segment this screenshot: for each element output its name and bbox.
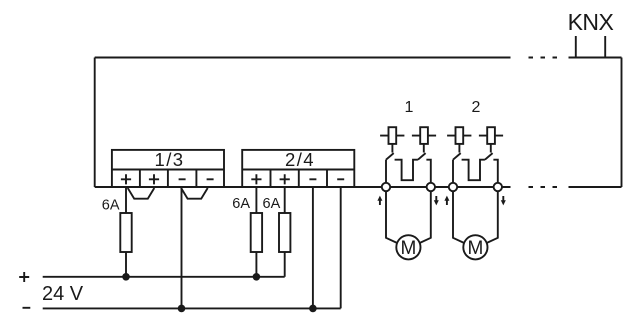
minus supply symbol xyxy=(23,307,31,309)
fuse F1 6A xyxy=(120,213,131,252)
channel 2 left switch blade xyxy=(453,153,461,160)
channel 2 relay group xyxy=(447,127,503,243)
channel 1 motor wire left xyxy=(386,191,397,243)
jumper bridge under 1/3 plus terminals xyxy=(128,188,155,199)
junction dot minus rail / 1-3 minus wire xyxy=(178,305,186,313)
channel 1 motor M1 circle xyxy=(396,235,420,259)
fuse F3 6A xyxy=(279,213,290,252)
channel 2 drive symbol left (rect) xyxy=(456,127,464,144)
device box bottom edge right segment xyxy=(569,186,622,188)
channel 1 left vertical wire to terminal xyxy=(385,160,387,183)
channel 1 right contact dropper xyxy=(423,144,425,153)
junction dot plus rail / F2 xyxy=(253,273,261,281)
channel 2 drive symbol left linkage lines xyxy=(447,135,471,137)
device box right edge xyxy=(621,58,623,188)
wire from 1/3 minus terminal to minus rail xyxy=(181,187,183,308)
channel 1 relay group xyxy=(380,127,436,243)
terminal 2/4 minus sign cell4 xyxy=(337,178,344,180)
channel 1 terminal circle right xyxy=(427,183,435,191)
KNX bus wire right xyxy=(604,36,606,58)
channel 2 down arrow xyxy=(501,196,506,205)
svg-text:6A: 6A xyxy=(263,196,281,212)
minus supply rail 24V xyxy=(43,307,341,309)
wire from fuse F3 down to plus rail corner xyxy=(284,252,286,277)
channel 2 motor wire right xyxy=(487,191,498,243)
channel 1 up arrow xyxy=(377,196,382,205)
channel 1 drive symbol right (rect) xyxy=(420,127,428,144)
channel 2 terminal circle right xyxy=(494,183,502,191)
plus supply rail 24V xyxy=(43,276,285,278)
device box bottom edge dashed continuation xyxy=(529,186,558,188)
channel 2 left vertical wire to terminal xyxy=(452,160,454,183)
channel 1 left switch blade xyxy=(386,153,394,160)
jumper bridge under 1/3 minus terminals xyxy=(181,188,208,199)
terminal 2/4 plus sign cell1 xyxy=(251,174,261,184)
device box top edge xyxy=(95,57,511,59)
fuse F2 6A xyxy=(251,213,262,252)
terminal 1/3 minus sign cell4 xyxy=(207,178,214,180)
terminal block 1/3 header divider xyxy=(112,169,224,171)
KNX bus wire left xyxy=(575,36,577,58)
terminal 1/3 plus sign cell1 xyxy=(121,174,131,184)
channel 1 drive symbol right linkage lines xyxy=(412,135,436,137)
wire from fuse F1 to plus rail xyxy=(125,252,127,277)
terminal block 1/3 outline xyxy=(112,150,224,187)
channel 2 motor M2 circle xyxy=(463,235,487,259)
plus supply symbol xyxy=(19,272,29,282)
channel 2 motor wire left xyxy=(453,191,464,243)
device box left edge xyxy=(94,58,96,188)
terminal 2/4 minus sign cell3 xyxy=(309,178,316,180)
wire from fuse F2 to plus rail xyxy=(255,252,257,277)
channel 1 right wire to terminal xyxy=(426,160,430,183)
svg-text:6A: 6A xyxy=(232,196,250,212)
svg-text:M: M xyxy=(467,238,483,259)
terminal 1/3 minus sign cell3 xyxy=(179,178,186,180)
channel 2 terminal circle left xyxy=(449,183,457,191)
wire from 2/4 plus terminal 2 to fuse F3 xyxy=(284,187,286,213)
device box bottom edge (output bus) xyxy=(95,186,511,188)
svg-text:M: M xyxy=(400,238,416,259)
channel 1 left contact dropper xyxy=(391,144,393,153)
svg-text:6A: 6A xyxy=(102,197,120,213)
channel 2 drive symbol right (rect) xyxy=(487,127,495,144)
terminal block 2/4 outline xyxy=(242,150,354,187)
terminal 2/4 plus sign cell2 xyxy=(280,174,290,184)
svg-text:2/4: 2/4 xyxy=(285,149,315,170)
svg-text:1/3: 1/3 xyxy=(155,149,185,170)
junction dot plus rail / F1 xyxy=(122,273,130,281)
channel 1 drive symbol left (rect) xyxy=(389,127,397,144)
device box top edge right segment xyxy=(569,57,622,59)
channel 2 U-link wire between contacts xyxy=(462,160,485,181)
svg-text:KNX: KNX xyxy=(568,9,614,35)
terminal 1/3 plus sign cell2 xyxy=(149,174,159,184)
svg-text:2: 2 xyxy=(472,99,481,116)
channel 1 down arrow xyxy=(434,196,439,205)
wire from 2/4 minus terminal 3 to minus rail xyxy=(312,187,314,308)
svg-text:24 V: 24 V xyxy=(42,283,84,305)
terminal block 1/3 cell dividers xyxy=(140,170,197,188)
channel 1 drive symbol left linkage lines xyxy=(380,135,404,137)
terminal block 2/4 header divider xyxy=(242,169,354,171)
channel 2 left contact dropper xyxy=(458,144,460,153)
wire from 1/3 plus terminal to fuse F1 xyxy=(125,187,127,213)
channel 1 right switch blade xyxy=(418,153,426,160)
channel 2 right contact dropper xyxy=(490,144,492,153)
terminal block 2/4 cell dividers xyxy=(271,170,328,188)
channel 2 right wire to terminal xyxy=(493,160,497,183)
channel 2 right switch blade xyxy=(485,153,493,160)
channel 2 up arrow xyxy=(444,196,449,205)
channel 1 motor wire right xyxy=(420,191,431,243)
svg-text:1: 1 xyxy=(405,99,414,116)
channel 2 drive symbol right linkage lines xyxy=(479,135,503,137)
channel 1 U-link wire between contacts xyxy=(395,160,418,181)
wire from 2/4 minus terminal 4 to minus rail corner xyxy=(340,187,342,308)
device box top edge dashed continuation xyxy=(529,57,558,59)
wire from 2/4 plus terminal 1 to fuse F2 xyxy=(255,187,257,213)
channel 1 terminal circle left xyxy=(382,183,390,191)
junction dot minus rail / 2-4 minus wire xyxy=(309,305,317,313)
